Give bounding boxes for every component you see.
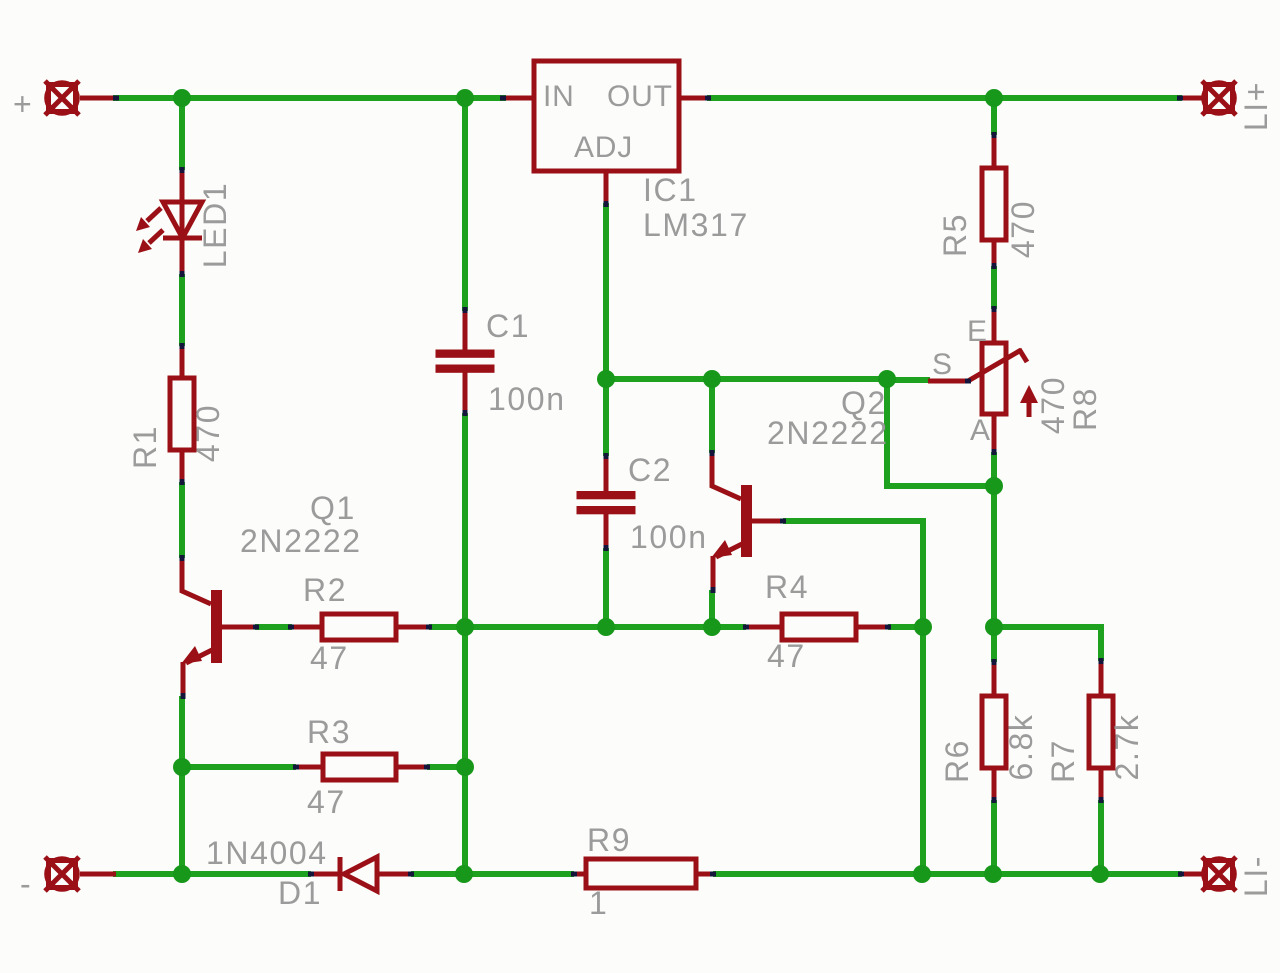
svg-text:R1: R1 xyxy=(127,425,163,469)
resistor R5 470 xyxy=(937,134,1041,267)
svg-text:47: 47 xyxy=(307,784,346,820)
pin stub pad + xyxy=(80,96,116,101)
LED1 emission arrow 2 xyxy=(149,230,163,243)
svg-text:1: 1 xyxy=(589,885,608,921)
LED1 emission arrow 1 xyxy=(147,208,161,221)
R8 adjust arrow xyxy=(1027,400,1032,417)
wire Q1 emitter down xyxy=(179,696,185,767)
svg-text:LI-: LI- xyxy=(1238,855,1274,897)
resistor R4 47 xyxy=(745,569,889,674)
svg-text:+: + xyxy=(13,86,33,122)
svg-text:E: E xyxy=(967,315,988,348)
wire R5 to R8 E xyxy=(991,266,997,309)
wire Q1 base to R2 xyxy=(255,624,292,630)
svg-text:Q1: Q1 xyxy=(310,490,356,526)
svg-text:470: 470 xyxy=(1035,376,1071,434)
svg-text:-: - xyxy=(20,866,32,902)
wire LED1 to R1 xyxy=(179,274,185,346)
LED LED1 xyxy=(136,169,233,275)
pin IN xyxy=(503,96,534,101)
pin OUT xyxy=(679,96,708,101)
svg-text:A: A xyxy=(970,414,991,447)
wire top row left (+ to IN) xyxy=(113,95,506,101)
R8 wiper S pin xyxy=(928,349,1027,381)
wire ADJ column xyxy=(603,203,609,379)
svg-text:1N4004: 1N4004 xyxy=(206,835,328,871)
resistor R3 47 xyxy=(295,714,428,820)
svg-text:100n: 100n xyxy=(630,519,708,555)
wire 465 column low xyxy=(462,767,468,874)
wire R2 to R4 row xyxy=(429,624,746,630)
svg-text:C2: C2 xyxy=(628,452,672,488)
potentiometer R8 470 xyxy=(928,308,1103,453)
transistor Q1 2N2222 xyxy=(181,490,362,697)
wire R6 bottom xyxy=(991,800,997,874)
pin ADJ xyxy=(604,171,609,204)
wire R4 to node xyxy=(888,624,923,630)
pin stub pad LI- xyxy=(1181,872,1204,877)
svg-text:LI+: LI+ xyxy=(1238,81,1274,131)
wire top row to C1 xyxy=(462,98,468,311)
wire node top to LED1 xyxy=(179,98,185,170)
wire 465 column mid xyxy=(462,627,468,767)
svg-text:47: 47 xyxy=(310,640,349,676)
transistor Q2 2N2222 xyxy=(711,385,889,591)
resistor R6 6.8k xyxy=(939,661,1039,801)
svg-text:R7: R7 xyxy=(1045,739,1081,783)
pin stub pad - xyxy=(80,872,116,877)
wire wiper node corner to R8 A xyxy=(887,379,994,486)
wire/pin junction ticks xyxy=(113,96,1184,877)
resistor R1 470 xyxy=(127,345,226,483)
svg-text:C1: C1 xyxy=(486,308,530,344)
wire bottom row a xyxy=(113,871,311,877)
resistor R9 1 xyxy=(572,822,714,921)
pin stub pad LI+ xyxy=(1180,96,1204,101)
wire 994 column xyxy=(991,486,997,627)
svg-text:R2: R2 xyxy=(303,572,347,608)
wire node to R7 xyxy=(994,627,1101,661)
wire Q2 emitter xyxy=(709,590,715,627)
pad LI+ terminal xyxy=(1202,81,1236,115)
svg-text:D1: D1 xyxy=(278,875,322,911)
resistor R2 47 xyxy=(291,572,430,676)
svg-text:R3: R3 xyxy=(307,714,351,750)
svg-text:OUT: OUT xyxy=(607,80,673,113)
svg-text:LED1: LED1 xyxy=(197,182,233,268)
svg-text:S: S xyxy=(932,348,953,381)
wire R7 bottom xyxy=(1098,800,1104,874)
wire R8 A down xyxy=(991,452,997,486)
wire bottom row b (D1 to R9) xyxy=(411,871,574,877)
svg-text:R4: R4 xyxy=(765,569,809,605)
svg-text:IN: IN xyxy=(543,80,575,113)
svg-text:47: 47 xyxy=(767,638,806,674)
wire node to R6 xyxy=(991,627,997,662)
svg-text:2N2222: 2N2222 xyxy=(767,415,889,451)
wire R1 to Q1 collector xyxy=(179,482,185,558)
svg-text:100n: 100n xyxy=(488,381,566,417)
wire R3 to 465 node xyxy=(427,764,465,770)
wire C2 to row xyxy=(603,548,609,627)
resistor R7 2.7k xyxy=(1045,660,1145,801)
capacitor C1 100n xyxy=(436,308,566,417)
svg-text:6.8k: 6.8k xyxy=(1003,714,1039,781)
pad + terminal xyxy=(45,81,79,115)
wire bottom row c (R9 to LI-) xyxy=(713,871,1182,877)
wire ADJ row xyxy=(606,376,887,382)
op-amp regulator IC1 LM317 box xyxy=(503,61,749,243)
wire emitter node to R3 xyxy=(182,764,296,770)
svg-text:R8: R8 xyxy=(1067,387,1103,431)
capacitor C2 100n xyxy=(577,452,708,555)
wire emitter node to bottom row xyxy=(179,767,185,874)
diode D1 1N4004 xyxy=(206,835,412,911)
wire node to R8 wiper S xyxy=(887,377,930,383)
pad LI- terminal xyxy=(1202,857,1236,891)
svg-text:R9: R9 xyxy=(587,822,631,858)
svg-text:IC1: IC1 xyxy=(643,172,698,208)
wire top row right (OUT to LI+) xyxy=(707,95,1182,101)
svg-text:2.7k: 2.7k xyxy=(1109,714,1145,781)
wire top row to R5 xyxy=(991,98,997,135)
svg-text:470: 470 xyxy=(1005,200,1041,258)
svg-text:LM317: LM317 xyxy=(643,207,749,243)
svg-text:ADJ: ADJ xyxy=(574,131,633,164)
svg-text:470: 470 xyxy=(190,404,226,462)
wire Q2 base to R4 node xyxy=(783,521,923,627)
pad - terminal xyxy=(45,857,79,891)
wire ADJ node to C2 xyxy=(603,379,609,456)
svg-text:R5: R5 xyxy=(937,213,973,257)
wire Q2 collector xyxy=(709,379,715,453)
svg-text:2N2222: 2N2222 xyxy=(240,523,362,559)
svg-text:R6: R6 xyxy=(939,739,975,783)
wire 923 column down xyxy=(920,627,926,874)
wire C1 to row node xyxy=(462,413,468,627)
